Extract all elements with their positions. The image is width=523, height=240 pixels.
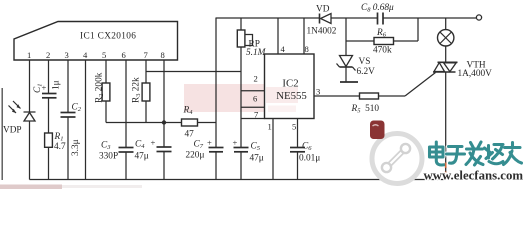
svg-text:2: 2 — [254, 74, 258, 84]
node junction — [162, 120, 166, 124]
wire pin8 — [163, 60, 165, 123]
svg-text:3.3μ: 3.3μ — [71, 139, 81, 156]
pin 2 wire — [241, 90, 265, 92]
svg-text:1N4002: 1N4002 — [307, 27, 337, 37]
capacitor C8 — [361, 3, 394, 25]
svg-text:220μ: 220μ — [186, 151, 205, 161]
svg-text:8: 8 — [161, 50, 165, 60]
IC2 NE555 box — [265, 54, 315, 119]
capacitor C4 — [135, 123, 172, 162]
svg-text:47: 47 — [185, 130, 195, 140]
pin 8 wire — [303, 18, 305, 54]
svg-text:R3 22k: R3 22k — [132, 77, 143, 103]
svg-text:3: 3 — [65, 50, 69, 60]
pin 4 wire — [277, 18, 279, 54]
svg-text:+: + — [233, 138, 238, 148]
svg-text:330P: 330P — [99, 152, 118, 162]
svg-text:IC2: IC2 — [282, 78, 298, 90]
wire bus pins7/8 to supply — [146, 71, 241, 73]
pin 7 wire — [241, 118, 265, 120]
svg-text:NE555: NE555 — [276, 90, 307, 102]
pin 3 wire — [314, 95, 360, 97]
svg-text:5: 5 — [292, 122, 296, 132]
triac VTH — [433, 46, 492, 79]
resistor R4 — [182, 106, 198, 140]
terminal — [476, 15, 481, 20]
svg-text:7: 7 — [144, 50, 149, 60]
svg-text:4.7: 4.7 — [54, 142, 66, 152]
photodiode VDP — [3, 101, 36, 136]
svg-text:47μ: 47μ — [250, 154, 264, 164]
supply vertical with C7 — [215, 18, 217, 148]
svg-text:+: + — [151, 138, 156, 148]
svg-text:5.1M: 5.1M — [246, 48, 267, 58]
lamp — [438, 18, 454, 46]
svg-text:VDP: VDP — [3, 126, 22, 136]
svg-text:2: 2 — [46, 50, 50, 60]
wire gate diagonal — [405, 73, 436, 97]
capacitor C3 — [99, 123, 134, 162]
svg-text:R2 200k: R2 200k — [95, 72, 106, 103]
bottom-left scan streak — [0, 185, 62, 190]
resistor R3 — [132, 77, 150, 103]
svg-text:6.2V: 6.2V — [357, 67, 376, 77]
svg-text:C8 0.68μ: C8 0.68μ — [361, 3, 394, 14]
zener VS — [337, 18, 376, 82]
svg-text:www.elecfans.com: www.elecfans.com — [424, 169, 523, 183]
svg-text:VD: VD — [316, 5, 330, 15]
orange wire tint segments — [445, 163, 447, 169]
svg-text:1: 1 — [268, 122, 272, 132]
resistor R2 — [95, 72, 110, 103]
capacitor C5 — [233, 138, 264, 164]
svg-text:+: + — [207, 138, 212, 148]
diode VD 1N4002 — [307, 5, 337, 37]
resistor R6 — [346, 18, 418, 56]
pin 5 wire — [297, 119, 299, 148]
wire — [198, 122, 217, 124]
wire pin1 — [29, 60, 31, 112]
svg-text:1μ: 1μ — [52, 80, 62, 90]
wire pin5 — [105, 60, 107, 83]
svg-text:VS: VS — [359, 57, 371, 67]
svg-text:R5 510: R5 510 — [351, 104, 380, 115]
svg-text:1A,400V: 1A,400V — [458, 69, 493, 79]
wire — [29, 121, 31, 180]
svg-text:1: 1 — [27, 50, 31, 60]
svg-text:0.01μ: 0.01μ — [299, 154, 320, 164]
resistor R5 — [351, 93, 380, 115]
svg-text:470k: 470k — [373, 46, 392, 56]
pin 1 wire — [272, 119, 274, 180]
svg-text:5: 5 — [102, 50, 106, 60]
capacitor C1 — [33, 80, 62, 97]
wire pin2 — [48, 60, 50, 94]
svg-text:6: 6 — [122, 50, 127, 60]
watermark CJK text 电子发烧友 (drawn strokes) — [430, 142, 522, 165]
wire W1 — [106, 122, 182, 124]
svg-text:IC1 CX20106: IC1 CX20106 — [80, 32, 136, 42]
wire pin4 — [85, 60, 87, 180]
op-amp U1 : IC1 CX20106 box — [14, 22, 178, 61]
svg-text:8: 8 — [305, 44, 309, 54]
capacitor C6 — [290, 142, 320, 164]
bottom rail — [30, 179, 446, 181]
resistor R1 — [45, 132, 66, 152]
capacitor C7 — [186, 138, 224, 161]
svg-text:47μ: 47μ — [135, 152, 149, 162]
svg-text:4: 4 — [83, 50, 88, 60]
svg-text:7: 7 — [254, 110, 259, 120]
potentiometer RP — [237, 18, 266, 58]
capacitor C2 — [61, 103, 82, 157]
wire pin7 — [145, 60, 147, 83]
top rail — [216, 17, 320, 19]
svg-text:6: 6 — [253, 94, 258, 104]
svg-text:4: 4 — [281, 44, 286, 54]
wire pin6 — [125, 60, 127, 123]
page left edge — [1, 88, 3, 180]
watermark logo circle — [370, 121, 422, 184]
svg-text:3: 3 — [316, 87, 320, 97]
highlight band — [184, 84, 267, 112]
wire pin3 — [67, 60, 69, 113]
pin 6 wire — [241, 106, 265, 108]
